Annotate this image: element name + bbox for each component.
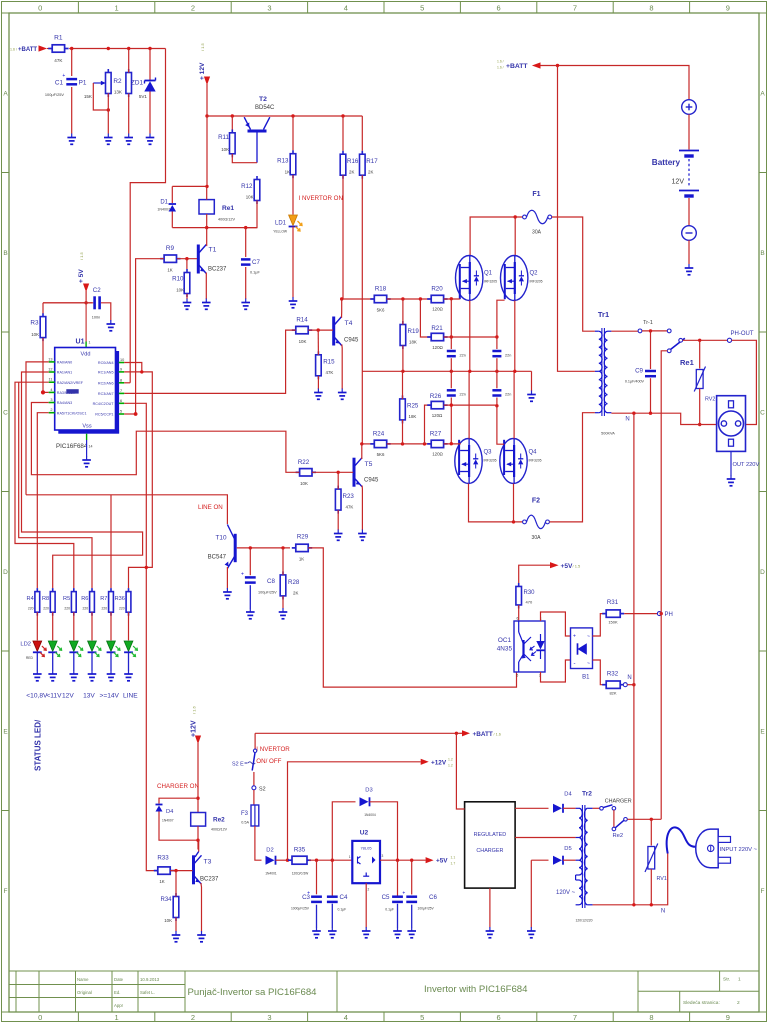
svg-text:C1: C1 (55, 80, 64, 87)
svg-text:R29: R29 (297, 534, 309, 541)
svg-text:Q2: Q2 (530, 271, 539, 277)
svg-text:9: 9 (726, 1013, 730, 1022)
power flag +5V out (426, 857, 434, 863)
ground mid rail (531, 391, 533, 395)
svg-text:R9: R9 (166, 245, 175, 252)
wire Q3 Q4 sources to F2 (469, 484, 523, 522)
svg-text:Appr: Appr (114, 1003, 124, 1008)
wire pin3 path to R22 (31, 403, 299, 475)
wires LEDs to ground (36, 652, 38, 670)
svg-text:7: 7 (120, 389, 122, 393)
title block (9, 970, 759, 972)
wire R22 to T5 base (312, 471, 353, 473)
svg-text:D5: D5 (564, 846, 571, 852)
relay coil Re2 (191, 813, 206, 827)
capacitor C upper 22n A (450, 299, 452, 349)
svg-text:N: N (627, 675, 631, 681)
MOSFET Q4 (500, 439, 527, 484)
wire R20 to Q1 gate (444, 298, 460, 300)
resistor R36 220 (128, 588, 130, 592)
svg-text:D: D (3, 569, 8, 576)
wire R24 to R27 (387, 443, 431, 445)
resistor R15 (317, 351, 319, 355)
svg-text:Vdd: Vdd (81, 352, 91, 358)
svg-text:LINE ON: LINE ON (198, 504, 223, 511)
svg-text:~: ~ (587, 634, 590, 640)
svg-text:0.1μF/400V: 0.1μF/400V (625, 380, 645, 384)
MOSFET Q2 (501, 256, 528, 301)
svg-text:1.2: 1.2 (448, 764, 453, 768)
ground under C1 (71, 134, 73, 138)
transistor T2 (248, 130, 267, 133)
svg-text:R4: R4 (27, 596, 34, 602)
wire N rail bottom (593, 854, 668, 905)
svg-text:R8: R8 (42, 596, 49, 602)
svg-text:F1: F1 (532, 191, 540, 198)
svg-text:S2 E: S2 E (232, 762, 244, 768)
ground under R34 (175, 931, 177, 935)
resistor R1 (48, 48, 52, 50)
wire B1 to R32 (593, 660, 605, 685)
svg-text:R12: R12 (241, 183, 253, 190)
svg-text:18K: 18K (409, 340, 417, 345)
wire R12 to sense net (246, 201, 257, 228)
ground under LD1 (292, 297, 294, 301)
svg-text:+5V: +5V (436, 858, 448, 865)
resistor R13 (292, 150, 294, 154)
svg-text:5: 5 (517, 674, 519, 678)
wire R9 to T1 base (177, 258, 197, 260)
ground under R23 (337, 530, 339, 534)
svg-text:R17: R17 (366, 158, 378, 165)
svg-text:RC4/C2OUT: RC4/C2OUT (93, 402, 115, 406)
svg-text:INPUT 220V ~: INPUT 220V ~ (720, 847, 758, 853)
svg-text:/ 1.6: / 1.6 (494, 733, 501, 737)
wire to Q4 gate (497, 406, 504, 444)
overline on MCLR (66, 389, 78, 393)
svg-text:Date: Date (114, 977, 124, 982)
svg-text:+: + (62, 73, 65, 79)
svg-text:Re2: Re2 (213, 817, 225, 824)
ground under C5 (397, 927, 399, 931)
svg-text:CHARGER: CHARGER (476, 848, 503, 854)
svg-text:OC1: OC1 (498, 637, 512, 644)
wire relay top net (172, 185, 207, 187)
wire T3 collector (195, 852, 199, 858)
resistor R24 (370, 443, 374, 445)
svg-text:C945: C945 (344, 338, 359, 344)
svg-text:Re2: Re2 (613, 833, 624, 839)
ground under C6 (411, 927, 413, 931)
svg-text:~: ~ (587, 661, 590, 667)
svg-text:10.9.2013: 10.9.2013 (140, 977, 160, 982)
wire pin8 to battery divider (124, 382, 130, 384)
wire R21 jog (420, 299, 431, 337)
power plug (696, 829, 718, 868)
resistor R10 (186, 269, 188, 273)
svg-text:4: 4 (344, 4, 348, 13)
svg-text:E: E (3, 728, 8, 735)
varistor RV2 (699, 340, 701, 368)
svg-text:/ 1.6: / 1.6 (192, 705, 197, 714)
svg-text:R16: R16 (347, 158, 359, 165)
svg-text:2K: 2K (293, 591, 298, 596)
svg-text:0: 0 (38, 4, 42, 13)
battery plus terminal (682, 100, 697, 115)
resistor R30 (518, 583, 520, 587)
svg-text:CHARGER: CHARGER (605, 799, 632, 805)
wire +5V C2 line (43, 302, 93, 304)
svg-text:BC237: BC237 (200, 877, 219, 883)
svg-text:LD2: LD2 (20, 642, 31, 648)
capacitor C upper 22n B (496, 337, 498, 349)
wire B1 to R31 (593, 614, 605, 636)
svg-text:R20: R20 (431, 286, 443, 293)
wire R35 to U2 (309, 859, 352, 861)
svg-text:22n: 22n (505, 354, 511, 358)
svg-text:4: 4 (344, 1013, 348, 1022)
optocoupler OC1 4N35 (514, 621, 545, 672)
wire common mid rail (362, 370, 531, 372)
resistor R12 (256, 176, 258, 180)
svg-text:Tr-1: Tr-1 (643, 320, 653, 326)
resistor R31 (602, 613, 606, 615)
svg-text:R24: R24 (373, 431, 385, 438)
svg-text:1: 1 (89, 341, 91, 345)
wire U2 out (380, 859, 426, 861)
svg-text:C2: C2 (93, 287, 101, 294)
svg-text:4: 4 (50, 388, 52, 392)
svg-text:120Ω: 120Ω (432, 345, 443, 350)
ground under R15 (317, 389, 319, 393)
svg-text:Safet L.: Safet L. (140, 990, 155, 995)
svg-text:100μF/25V: 100μF/25V (258, 591, 277, 595)
svg-text:8: 8 (120, 378, 122, 382)
svg-text:RV1: RV1 (657, 876, 667, 882)
svg-text:1: 1 (115, 1013, 119, 1022)
bridge rectifier B1 (571, 628, 593, 669)
capacitor C7 (245, 228, 247, 257)
svg-text:0.1μF: 0.1μF (338, 908, 347, 912)
svg-text:1: 1 (738, 977, 741, 983)
svg-text:BC237: BC237 (208, 267, 227, 273)
svg-text:N: N (625, 417, 629, 423)
svg-text:3: 3 (50, 398, 52, 402)
svg-text:1.6 /: 1.6 / (497, 60, 504, 64)
wire T5 collector (361, 444, 363, 459)
svg-text:T1: T1 (209, 247, 217, 254)
wire T10 emitter to ground (226, 567, 228, 589)
ground under T4 (341, 389, 343, 393)
svg-text:220: 220 (28, 607, 34, 611)
resistor R27 (427, 443, 431, 445)
wire Tr1 secondary top to Tr-1 jumper (611, 330, 638, 332)
svg-text:R28: R28 (288, 579, 300, 586)
svg-text:30A: 30A (532, 230, 542, 236)
wire F1 to Tr1 top (552, 217, 595, 331)
svg-text:120V ~: 120V ~ (556, 890, 576, 896)
svg-text:Re1: Re1 (680, 358, 694, 367)
MOSFET Q3 (455, 439, 482, 484)
svg-text:Original: Original (77, 990, 92, 995)
svg-text:R33: R33 (157, 855, 169, 862)
regulated charger box (465, 802, 515, 888)
wire relay feed (206, 116, 208, 186)
wire F2 to Tr1 bottom (549, 413, 595, 522)
pin 13 RA0/AN0 (49, 361, 55, 363)
wire OC1 to B1 top (541, 612, 571, 636)
resistor R17 (361, 151, 363, 155)
ground under U2 (365, 927, 367, 931)
svg-text:120Ω: 120Ω (432, 413, 443, 418)
svg-text:R13: R13 (277, 158, 289, 165)
green status LEDs (48, 641, 57, 651)
svg-text:IRF3205: IRF3205 (484, 459, 497, 463)
svg-text:R3: R3 (30, 320, 39, 327)
socket OUT 220V (717, 396, 746, 452)
svg-text:22n: 22n (460, 393, 466, 397)
svg-text:1.6 /: 1.6 / (497, 66, 504, 70)
pin 12 RA1/AN1 (49, 371, 55, 373)
svg-text:5K6: 5K6 (377, 308, 385, 313)
svg-text:BD54C: BD54C (255, 105, 275, 111)
resistor R32 (602, 684, 606, 686)
svg-text:1.1: 1.1 (451, 856, 456, 860)
svg-text:6: 6 (497, 1013, 501, 1022)
wire N line down (633, 413, 635, 905)
svg-text:1: 1 (349, 855, 351, 859)
svg-text:8: 8 (649, 1013, 653, 1022)
resistor R3 (42, 313, 44, 317)
svg-text:2: 2 (50, 408, 52, 412)
resistor R29 (292, 547, 296, 549)
svg-text:RC3/AN7: RC3/AN7 (98, 392, 114, 396)
wire Q1 source down (469, 301, 471, 372)
svg-text:RV2: RV2 (705, 397, 715, 403)
svg-text:RC1/AN5: RC1/AN5 (98, 371, 114, 375)
resistor R25 (402, 395, 404, 399)
svg-text:C7: C7 (252, 259, 260, 266)
diode D1 (171, 186, 173, 203)
wire T3 emitter (200, 883, 203, 932)
wire R11-R12-T2 base (232, 154, 257, 163)
wire 12V rail (207, 115, 362, 117)
wire pin12 to R8 (22, 372, 143, 588)
wire T5 emitter to ground (361, 486, 363, 530)
svg-text:1N4001: 1N4001 (265, 872, 277, 876)
fuse F2 30A (523, 520, 527, 524)
resistor R18 (370, 298, 374, 300)
wire +12V to rail (206, 84, 208, 116)
diode D4 rectifier (553, 804, 562, 813)
svg-text:13V: 13V (83, 693, 95, 700)
svg-text:R31: R31 (607, 599, 619, 606)
svg-text:+12V: +12V (191, 720, 198, 737)
ground under C7 (245, 299, 247, 303)
relay coil Re1 (199, 200, 214, 214)
top coordinate band 0-9 (2, 12, 766, 14)
svg-text:1K: 1K (299, 557, 304, 562)
wire pin11 to R5 (15, 382, 74, 588)
svg-text:RA1/AN1: RA1/AN1 (57, 371, 72, 375)
svg-text:+BATT: +BATT (473, 731, 493, 738)
svg-text:R36: R36 (115, 596, 125, 602)
power flag +BATT mid (455, 732, 458, 735)
resistor R35 (288, 859, 292, 861)
svg-text:C5: C5 (382, 894, 390, 901)
wire R9 left to pin5 column (136, 259, 164, 414)
capacitor C8 (249, 548, 251, 575)
capacitor C6 (411, 860, 413, 894)
svg-text:100μF/25V: 100μF/25V (418, 906, 435, 910)
wire Q3 drain up (468, 371, 470, 438)
svg-text:47K: 47K (326, 370, 334, 375)
svg-text:C6: C6 (429, 894, 437, 901)
svg-text:CHARGER ON: CHARGER ON (157, 783, 199, 790)
svg-text:R1: R1 (54, 35, 63, 42)
ground under R28 (282, 608, 284, 612)
wire top bus (69, 48, 165, 50)
svg-text:1K: 1K (285, 170, 290, 175)
wire battery sense bus to pin8 (130, 49, 165, 383)
relay contact Re2 (613, 810, 615, 827)
svg-text:T5: T5 (365, 461, 373, 468)
svg-text:B: B (760, 250, 764, 257)
svg-text:10: 10 (120, 358, 124, 362)
ground under R10 (186, 299, 188, 303)
ground under C2 (110, 320, 112, 324)
svg-text:+BATT: +BATT (18, 47, 37, 53)
wire pin10 join pin9 (124, 363, 142, 372)
svg-text:>=14V: >=14V (100, 693, 120, 700)
resistor R34 (175, 893, 177, 897)
resistor R21 (427, 336, 431, 338)
svg-text:U1: U1 (76, 339, 85, 346)
wire T4 collector (341, 299, 343, 318)
svg-text:220: 220 (64, 607, 70, 611)
svg-text:470: 470 (526, 600, 533, 605)
svg-text:Name: Name (77, 977, 89, 982)
svg-text:120Ω: 120Ω (432, 452, 443, 457)
pin 6 RC4/C2OUT (119, 402, 125, 404)
pin 8 RC2/AN6 (119, 382, 125, 384)
svg-text:C3: C3 (302, 894, 310, 901)
svg-text:5: 5 (420, 4, 424, 13)
svg-text:RA0/AN0: RA0/AN0 (57, 361, 72, 365)
svg-text:R23: R23 (343, 493, 355, 500)
svg-text:IRF3205: IRF3205 (530, 280, 543, 284)
svg-text:D1: D1 (160, 200, 168, 206)
IC U1 PIC16F684 body (116, 351, 120, 434)
svg-text:Battery: Battery (652, 158, 681, 167)
svg-text:/ 1.5: / 1.5 (573, 564, 582, 569)
svg-text:1K: 1K (167, 268, 172, 273)
wire socket to ground (730, 451, 732, 475)
ground under R2 (128, 134, 130, 138)
resistor R8 220 (52, 588, 54, 592)
svg-text:1000μF/25V: 1000μF/25V (291, 906, 310, 910)
resistor R33 (154, 870, 158, 872)
svg-text:R11: R11 (218, 134, 229, 141)
svg-text:+BATT: +BATT (506, 63, 528, 70)
svg-text:500KVA: 500KVA (601, 432, 615, 436)
svg-text:3: 3 (382, 854, 384, 858)
svg-text:1.6 /: 1.6 / (10, 48, 17, 52)
ground under D5 line (530, 927, 532, 931)
svg-text:Q3: Q3 (484, 450, 493, 456)
resistor R6 220 (91, 588, 93, 592)
svg-text:C945: C945 (364, 478, 379, 484)
svg-text:R18: R18 (375, 286, 387, 293)
svg-text:1K: 1K (159, 879, 164, 884)
svg-text:R30: R30 (524, 590, 536, 596)
resistor R19 (402, 321, 404, 325)
wire relay bottom net (172, 227, 257, 229)
svg-text:10K: 10K (176, 288, 184, 293)
resistor R11 (231, 129, 233, 133)
jumper Tr-1 (638, 329, 642, 333)
wire mid rail to ground (531, 371, 533, 391)
svg-text:STATUS LED/: STATUS LED/ (34, 719, 43, 771)
svg-text:2K: 2K (349, 170, 354, 175)
svg-text:Q4: Q4 (529, 450, 538, 456)
svg-text:Invertor with PIC16F684: Invertor with PIC16F684 (424, 984, 528, 995)
svg-text:10K: 10K (164, 918, 172, 923)
svg-text:C8: C8 (267, 578, 275, 585)
svg-text:2: 2 (191, 1013, 195, 1022)
svg-text:C: C (760, 409, 765, 416)
wire R29 to OC1 (308, 548, 516, 687)
svg-text:1.7: 1.7 (451, 862, 456, 866)
pin 10 RC0/AN4 (119, 362, 125, 364)
capacitor C4 (331, 860, 333, 895)
wire pin13 to LINE ON (26, 362, 49, 495)
svg-text:T4: T4 (345, 320, 353, 327)
capacitor C3 (316, 860, 318, 894)
svg-text:ZD1: ZD1 (131, 80, 144, 87)
svg-text:1N4004: 1N4004 (364, 813, 376, 817)
ground under battery (688, 264, 690, 268)
jumper CHARGER (593, 807, 600, 809)
wire LINE ON (26, 495, 227, 524)
svg-text:22n: 22n (460, 354, 466, 358)
wire R31 to PH (624, 613, 657, 615)
svg-text:R19: R19 (408, 328, 420, 335)
wire charger bottom ground (489, 888, 491, 927)
wire R26 to Q4 gate (444, 404, 497, 406)
resistor R9 (160, 258, 164, 260)
svg-text:-: - (574, 661, 576, 667)
svg-text:PH: PH (665, 612, 673, 618)
svg-text:R15: R15 (323, 359, 335, 366)
fuse F3 (251, 805, 259, 826)
capacitor C9 (650, 331, 652, 369)
node dots on top bus (70, 47, 73, 50)
svg-text:PH-OUT: PH-OUT (731, 331, 754, 337)
grounds under LEDs (36, 670, 38, 674)
svg-text:13K: 13K (114, 90, 123, 95)
svg-text:R10: R10 (172, 276, 184, 283)
svg-text:F: F (4, 888, 8, 895)
svg-text:3: 3 (267, 1013, 271, 1022)
svg-text:6: 6 (497, 4, 501, 13)
svg-text:PIC16F684: PIC16F684 (56, 443, 88, 450)
svg-text:S2: S2 (259, 787, 266, 793)
pin 9 RC1/AN5 (119, 371, 125, 373)
wire battery top (541, 66, 690, 100)
battery cells (679, 150, 699, 152)
wire PH-OUT to socket (732, 340, 757, 424)
